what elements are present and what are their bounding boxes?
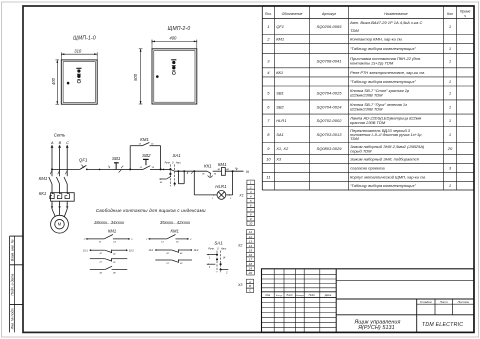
svg-text:1: 1 bbox=[449, 132, 451, 137]
svg-text:20: 20 bbox=[447, 146, 453, 151]
svg-text:15: 15 bbox=[249, 248, 253, 252]
svg-text:SQ0703-0013: SQ0703-0013 bbox=[317, 132, 343, 137]
svg-text:“Таблицу выбора комплектующих”: “Таблицу выбора комплектующих” bbox=[350, 183, 416, 188]
svg-text:Дата: Дата bbox=[324, 294, 332, 297]
svg-text:“Таблицу выбора комплектующих”: “Таблицу выбора комплектующих” bbox=[350, 46, 416, 51]
svg-text:1: 1 bbox=[212, 198, 213, 200]
svg-text:SA1: SA1 bbox=[276, 132, 284, 137]
svg-text:SQ0708-0041: SQ0708-0041 bbox=[317, 58, 342, 63]
svg-text:19: 19 bbox=[249, 267, 253, 271]
svg-text:“Таблицу выбора комплектующих”: “Таблицу выбора комплектующих” bbox=[350, 79, 416, 84]
svg-text:Поз.: Поз. bbox=[265, 12, 272, 16]
svg-text:Сеть: Сеть bbox=[54, 132, 66, 137]
svg-text:согласно проекта: согласно проекта bbox=[350, 166, 385, 171]
svg-text:Х3: Х3 bbox=[237, 283, 242, 287]
svg-text:положения I–0–II длинная ручка: положения I–0–II длинная ручка 1з+1р bbox=[350, 132, 422, 137]
svg-text:КК1: КК1 bbox=[276, 70, 283, 75]
svg-text:Свободные контакты для ящиков: Свободные контакты для ящиков с индексам… bbox=[96, 208, 206, 213]
svg-text:SQ0803-0029: SQ0803-0029 bbox=[317, 146, 343, 151]
svg-text:Наименование: Наименование bbox=[384, 12, 408, 16]
svg-text:13: 13 bbox=[249, 239, 253, 243]
svg-text:1: 1 bbox=[449, 183, 451, 188]
svg-text:SB1: SB1 bbox=[112, 156, 121, 161]
svg-text:Подп. и дата: Подп. и дата bbox=[10, 274, 14, 296]
svg-text:SA1: SA1 bbox=[172, 153, 181, 158]
svg-text:10: 10 bbox=[249, 222, 253, 226]
svg-text:SQ0206-0065: SQ0206-0065 bbox=[317, 24, 343, 29]
svg-text:TDM: TDM bbox=[350, 136, 359, 141]
svg-text:Авт.: Авт. bbox=[220, 247, 227, 250]
svg-text:HLR1: HLR1 bbox=[276, 118, 286, 123]
svg-text:1: 1 bbox=[449, 118, 451, 123]
svg-text:А1: А1 bbox=[217, 168, 221, 171]
svg-text:Корпус металлический ЩМП, хар-: Корпус металлический ЩМП, хар-ки см. bbox=[350, 174, 426, 179]
svg-text:20: 20 bbox=[248, 271, 253, 275]
svg-text:SB2: SB2 bbox=[276, 105, 284, 110]
svg-text:Стадия: Стадия bbox=[420, 300, 432, 304]
svg-text:QF1: QF1 bbox=[79, 158, 88, 163]
svg-text:11: 11 bbox=[249, 230, 252, 234]
svg-text:С: С bbox=[66, 141, 69, 145]
svg-text:d22мм/230В TDM: d22мм/230В TDM bbox=[350, 107, 383, 112]
svg-text:Лист: Лист bbox=[285, 294, 292, 297]
svg-text:1: 1 bbox=[449, 46, 451, 51]
svg-text:d22мм/230В TDM: d22мм/230В TDM bbox=[350, 93, 383, 98]
svg-text:КМ1: КМ1 bbox=[276, 37, 284, 42]
svg-text:12: 12 bbox=[249, 235, 253, 239]
svg-text:В: В bbox=[249, 284, 251, 288]
svg-text:№докум.: №докум. bbox=[295, 294, 304, 297]
svg-text:10-1: 10-1 bbox=[149, 249, 154, 252]
svg-text:17: 17 bbox=[249, 257, 253, 261]
svg-text:QF1: QF1 bbox=[276, 24, 284, 29]
svg-text:КМ1: КМ1 bbox=[218, 162, 227, 167]
svg-text:Кол.уч: Кол.уч bbox=[276, 295, 283, 297]
svg-text:16: 16 bbox=[249, 253, 253, 257]
svg-text:КМ1: КМ1 bbox=[39, 176, 48, 181]
svg-text:Х3: Х3 bbox=[275, 157, 282, 162]
svg-text:35хххх...42хххх: 35хххх...42хххх bbox=[160, 220, 191, 225]
svg-text:Изм: Изм bbox=[266, 294, 271, 297]
svg-text:В: В bbox=[59, 141, 62, 145]
svg-text:Кол: Кол bbox=[447, 12, 453, 16]
svg-text:КК1: КК1 bbox=[204, 163, 212, 168]
svg-text:10-1: 10-1 bbox=[83, 249, 88, 252]
svg-text:SA1: SA1 bbox=[214, 240, 223, 245]
svg-text:Листов: Листов bbox=[457, 300, 470, 304]
svg-text:Контактор КМН, хар-ки см.: Контактор КМН, хар-ки см. bbox=[350, 37, 403, 42]
svg-text:Ручн.: Ручн. bbox=[165, 161, 171, 164]
svg-text:Инв. № подл.: Инв. № подл. bbox=[10, 308, 14, 330]
svg-text:А: А bbox=[50, 141, 54, 145]
svg-text:Артикул: Артикул bbox=[321, 12, 336, 16]
svg-text:1: 1 bbox=[267, 24, 269, 29]
svg-text:18: 18 bbox=[249, 262, 253, 266]
svg-text:Обозначение: Обозначение bbox=[282, 12, 303, 16]
svg-text:400: 400 bbox=[51, 77, 56, 85]
svg-text:10-2: 10-2 bbox=[129, 249, 134, 252]
svg-text:Авт.: Авт. bbox=[175, 161, 182, 164]
svg-text:Лист: Лист bbox=[439, 300, 448, 304]
svg-text:[4: [4 bbox=[222, 255, 226, 259]
svg-text:TDM ELECTRIC: TDM ELECTRIC bbox=[422, 322, 463, 328]
svg-text:Зажим наборный ЗНИ, подбираетс: Зажим наборный ЗНИ, подбирается bbox=[350, 157, 420, 162]
svg-text:1: 1 bbox=[449, 58, 451, 63]
svg-text:X1, Х2: X1, Х2 bbox=[275, 146, 289, 151]
svg-text:SQ0702-0002: SQ0702-0002 bbox=[317, 118, 343, 123]
svg-text:HLR1: HLR1 bbox=[215, 184, 227, 189]
svg-text:Взам. инв. №: Взам. инв. № bbox=[10, 239, 14, 261]
svg-text:SB2: SB2 bbox=[142, 153, 151, 158]
svg-text:1: 1 bbox=[449, 24, 451, 29]
svg-text:Реле РТН электротепловое, хар-: Реле РТН электротепловое, хар-ки см. bbox=[350, 70, 425, 75]
svg-text:N: N bbox=[246, 169, 249, 174]
svg-text:SB1: SB1 bbox=[276, 90, 284, 95]
svg-text:ч: ч bbox=[464, 14, 466, 18]
svg-text:Х2: Х2 bbox=[237, 244, 242, 248]
svg-text:М: М bbox=[58, 222, 62, 227]
svg-text:Х1: Х1 bbox=[238, 194, 243, 198]
svg-text:А: А bbox=[248, 280, 251, 284]
svg-text:1: 1 bbox=[449, 79, 451, 84]
svg-text:КК1: КК1 bbox=[39, 191, 47, 196]
svg-text:310: 310 bbox=[74, 48, 82, 53]
svg-text:серый TDM: серый TDM bbox=[350, 148, 372, 153]
svg-text:SQ0704-0024: SQ0704-0024 bbox=[317, 105, 343, 110]
svg-text:500: 500 bbox=[133, 73, 138, 81]
svg-text:SQ0704-0025: SQ0704-0025 bbox=[317, 90, 343, 95]
svg-text:КМ1: КМ1 bbox=[140, 137, 149, 142]
svg-text:11: 11 bbox=[266, 174, 270, 179]
svg-text:TDM: TDM bbox=[350, 28, 359, 33]
svg-text:1: 1 bbox=[108, 166, 109, 168]
svg-text:10: 10 bbox=[266, 157, 271, 162]
svg-text:ЩМП-1-0: ЩМП-1-0 bbox=[73, 36, 96, 42]
svg-text:400: 400 bbox=[169, 36, 177, 41]
svg-text:Авт. Выкл.ВА47-29 1Р 1А 4,5кА: Авт. Выкл.ВА47-29 1Р 1А 4,5кА х-ка С bbox=[349, 20, 422, 25]
svg-text:1: 1 bbox=[449, 90, 451, 95]
svg-text:18хххх...34хххх: 18хххх...34хххх bbox=[94, 220, 125, 225]
svg-text:КМ1: КМ1 bbox=[108, 229, 116, 234]
svg-text:Я(РУСН) 5131: Я(РУСН) 5131 bbox=[357, 325, 395, 331]
svg-text:ЩМП-2-0: ЩМП-2-0 bbox=[168, 26, 191, 32]
svg-text:контакты 2з+2р) TDM: контакты 2з+2р) TDM bbox=[350, 60, 394, 65]
svg-text:1: 1 bbox=[449, 105, 451, 110]
svg-text:Подп.: Подп. bbox=[309, 294, 316, 297]
svg-text:Ручн.: Ручн. bbox=[208, 247, 215, 250]
svg-text:14: 14 bbox=[249, 244, 253, 248]
svg-text:красная 230В TDM: красная 230В TDM bbox=[350, 120, 386, 125]
svg-text:КМ1: КМ1 bbox=[171, 229, 179, 234]
svg-text:10-2: 10-2 bbox=[194, 249, 199, 252]
svg-text:2: 2 bbox=[249, 185, 252, 189]
